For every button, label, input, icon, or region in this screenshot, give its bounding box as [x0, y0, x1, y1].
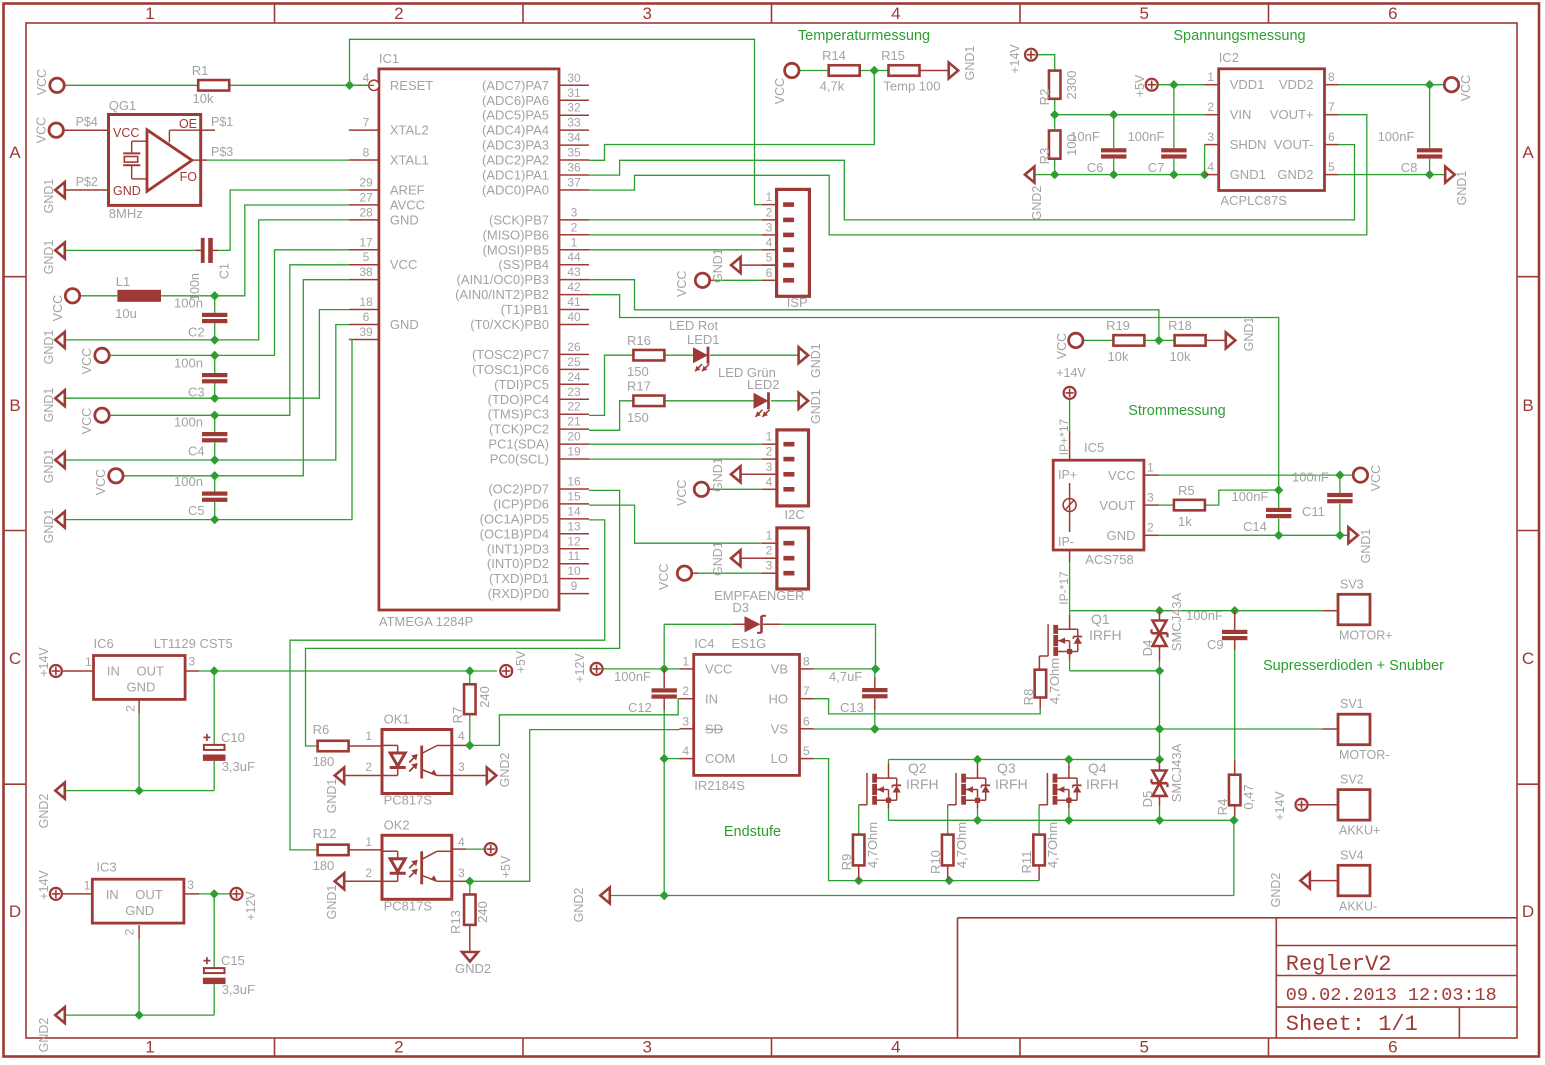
svg-text:3: 3	[571, 205, 578, 219]
svg-text:(OC1A)PD5: (OC1A)PD5	[480, 511, 549, 526]
svg-text:P$4: P$4	[76, 115, 98, 129]
svg-text:240: 240	[475, 901, 490, 923]
svg-text:1k: 1k	[1178, 514, 1192, 529]
svg-text:C8: C8	[1401, 160, 1418, 175]
svg-text:C15: C15	[221, 953, 245, 968]
svg-text:150: 150	[627, 410, 649, 425]
svg-text:2: 2	[1207, 100, 1214, 114]
svg-text:VCC: VCC	[705, 662, 732, 677]
svg-text:GND1: GND1	[42, 449, 56, 484]
svg-text:(ADC2)PA2: (ADC2)PA2	[482, 153, 549, 168]
svg-text:C: C	[9, 649, 21, 668]
svg-text:4: 4	[891, 1038, 900, 1057]
svg-text:GND: GND	[390, 317, 419, 332]
svg-text:AKKU-: AKKU-	[1339, 899, 1377, 913]
svg-text:100nF: 100nF	[1232, 489, 1269, 504]
svg-text:2: 2	[394, 4, 403, 23]
svg-text:QG1: QG1	[109, 98, 136, 113]
svg-text:R4: R4	[1215, 799, 1230, 816]
svg-text:Endstufe: Endstufe	[724, 824, 781, 840]
svg-text:GND2: GND2	[1277, 167, 1313, 182]
svg-text:4: 4	[891, 4, 900, 23]
svg-text:VCC: VCC	[113, 126, 139, 140]
svg-text:IC3: IC3	[96, 860, 116, 875]
svg-text:3,3uF: 3,3uF	[222, 982, 255, 997]
svg-text:6: 6	[803, 714, 810, 728]
svg-text:VCC: VCC	[773, 78, 787, 104]
svg-text:1: 1	[766, 430, 773, 444]
svg-text:IC4: IC4	[694, 636, 714, 651]
svg-text:1: 1	[766, 529, 773, 543]
svg-text:31: 31	[567, 86, 581, 100]
svg-text:A: A	[1522, 143, 1534, 162]
svg-text:(ADC7)PA7: (ADC7)PA7	[482, 78, 549, 93]
svg-text:VCC: VCC	[1108, 468, 1135, 483]
svg-text:IC2: IC2	[1219, 50, 1239, 65]
svg-text:21: 21	[567, 415, 581, 429]
svg-text:Spannungsmessung: Spannungsmessung	[1173, 28, 1305, 44]
svg-text:GND1: GND1	[711, 541, 725, 576]
svg-text:+5V: +5V	[499, 855, 513, 878]
svg-text:3: 3	[642, 4, 651, 23]
svg-text:D4: D4	[1140, 640, 1155, 657]
svg-text:Supresserdioden + Snubber: Supresserdioden + Snubber	[1263, 658, 1444, 674]
svg-text:OK2: OK2	[384, 817, 410, 832]
svg-text:Q2: Q2	[908, 760, 927, 776]
svg-text:36: 36	[567, 161, 581, 175]
svg-text:42: 42	[567, 280, 581, 294]
svg-text:C: C	[1522, 649, 1534, 668]
svg-text:4: 4	[458, 729, 465, 743]
svg-text:ACPLC87S: ACPLC87S	[1220, 193, 1287, 208]
svg-text:10k: 10k	[193, 91, 214, 106]
svg-text:VCC: VCC	[35, 117, 49, 143]
svg-text:2: 2	[1147, 521, 1154, 535]
svg-text:5: 5	[1328, 160, 1335, 174]
svg-text:LO: LO	[771, 751, 788, 766]
svg-text:6: 6	[363, 310, 370, 324]
svg-text:100n: 100n	[174, 415, 203, 430]
svg-text:VOUT+: VOUT+	[1270, 107, 1314, 122]
svg-text:(ICP)PD6: (ICP)PD6	[493, 496, 549, 511]
svg-text:AVCC: AVCC	[390, 197, 425, 212]
svg-text:3,3uF: 3,3uF	[222, 759, 255, 774]
svg-text:RESET: RESET	[390, 78, 433, 93]
svg-text:27: 27	[359, 190, 373, 204]
svg-text:1: 1	[766, 190, 773, 204]
svg-text:180: 180	[313, 858, 335, 873]
svg-text:2: 2	[682, 684, 689, 698]
svg-text:C12: C12	[628, 700, 652, 715]
svg-text:100nF: 100nF	[1292, 470, 1329, 485]
svg-text:2: 2	[766, 445, 773, 459]
svg-text:(T0/XCK)PB0: (T0/XCK)PB0	[470, 317, 549, 332]
svg-text:4,7Ohm: 4,7Ohm	[1047, 658, 1062, 704]
svg-text:30: 30	[567, 71, 581, 85]
svg-text:SV2: SV2	[1340, 773, 1364, 787]
svg-text:5: 5	[803, 744, 810, 758]
svg-text:1: 1	[365, 835, 372, 849]
svg-text:R7: R7	[450, 707, 465, 724]
svg-text:VCC: VCC	[675, 271, 689, 297]
svg-text:35: 35	[567, 146, 581, 160]
svg-text:GND1: GND1	[325, 885, 339, 920]
svg-text:AKKU+: AKKU+	[1339, 824, 1380, 838]
svg-text:39: 39	[359, 325, 373, 339]
svg-text:(AIN0/INT2)PB2: (AIN0/INT2)PB2	[455, 287, 549, 302]
svg-text:Strommessung: Strommessung	[1128, 403, 1226, 419]
svg-text:100n: 100n	[174, 356, 203, 371]
svg-text:1: 1	[145, 4, 154, 23]
svg-text:09.02.2013 12:03:18: 09.02.2013 12:03:18	[1286, 985, 1497, 1006]
svg-text:GND1: GND1	[42, 240, 56, 275]
svg-text:+12V: +12V	[573, 653, 587, 683]
svg-text:P$3: P$3	[211, 145, 233, 159]
svg-text:Q3: Q3	[997, 760, 1016, 776]
svg-text:100nF: 100nF	[614, 669, 651, 684]
svg-text:10k: 10k	[1108, 349, 1129, 364]
svg-text:VOUT-: VOUT-	[1274, 137, 1314, 152]
svg-text:+14V: +14V	[1056, 366, 1086, 380]
svg-text:ES1G: ES1G	[732, 636, 767, 651]
svg-text:1: 1	[571, 235, 578, 249]
svg-text:VCC: VCC	[1055, 333, 1069, 359]
svg-text:R18: R18	[1168, 318, 1192, 333]
svg-text:+12V: +12V	[244, 891, 258, 921]
svg-text:GND1: GND1	[1230, 167, 1266, 182]
svg-text:P$2: P$2	[76, 175, 98, 189]
svg-text:3: 3	[766, 220, 773, 234]
svg-text:R17: R17	[627, 379, 651, 394]
svg-text:SV3: SV3	[1340, 577, 1364, 591]
svg-text:VIN: VIN	[1230, 107, 1252, 122]
svg-text:+5V: +5V	[1133, 74, 1147, 97]
svg-text:4: 4	[458, 835, 465, 849]
svg-text:IP+*17: IP+*17	[1057, 418, 1071, 455]
svg-text:R13: R13	[448, 910, 463, 934]
svg-text:VDD1: VDD1	[1230, 77, 1265, 92]
svg-text:MOTOR+: MOTOR+	[1339, 628, 1393, 642]
svg-text:(ADC0)PA0: (ADC0)PA0	[482, 182, 549, 197]
svg-text:ISP: ISP	[787, 295, 808, 310]
svg-text:R19: R19	[1106, 318, 1130, 333]
svg-text:R10: R10	[928, 850, 943, 874]
svg-text:8: 8	[1328, 70, 1335, 84]
svg-text:C10: C10	[221, 730, 245, 745]
svg-text:GND1: GND1	[1455, 171, 1469, 206]
svg-text:SMCJ43A: SMCJ43A	[1169, 743, 1184, 802]
svg-text:R8: R8	[1021, 689, 1036, 706]
svg-text:(MOSI)PB5: (MOSI)PB5	[483, 242, 549, 257]
svg-text:4,7Ohm: 4,7Ohm	[865, 822, 880, 868]
svg-text:+14V: +14V	[37, 647, 51, 677]
svg-text:R9: R9	[839, 854, 854, 871]
svg-text:GND2: GND2	[1030, 186, 1044, 221]
svg-text:3: 3	[682, 714, 689, 728]
svg-text:240: 240	[477, 686, 492, 708]
svg-text:EMPFAENGER: EMPFAENGER	[714, 588, 804, 603]
svg-text:FO: FO	[180, 170, 198, 184]
svg-text:8: 8	[363, 146, 370, 160]
svg-text:GND1: GND1	[1359, 529, 1373, 564]
svg-text:IC1: IC1	[379, 51, 399, 66]
svg-text:3: 3	[458, 760, 465, 774]
svg-text:(TXD)PD1: (TXD)PD1	[489, 571, 549, 586]
svg-text:C11: C11	[1302, 504, 1325, 519]
svg-text:GND1: GND1	[42, 179, 56, 214]
svg-text:4,7Ohm: 4,7Ohm	[1045, 822, 1060, 868]
svg-text:1: 1	[1147, 461, 1154, 475]
svg-text:LED1: LED1	[687, 332, 720, 347]
svg-text:R2: R2	[1037, 89, 1052, 106]
svg-text:5: 5	[766, 251, 773, 265]
svg-text:24: 24	[567, 370, 581, 384]
svg-text:IP+: IP+	[1058, 468, 1077, 482]
svg-text:(INT1)PD3: (INT1)PD3	[487, 541, 549, 556]
svg-text:C2: C2	[188, 324, 205, 339]
svg-text:VCC: VCC	[657, 564, 671, 590]
svg-text:11: 11	[568, 549, 581, 563]
svg-text:2: 2	[365, 866, 372, 880]
svg-text:Q1: Q1	[1091, 611, 1110, 627]
svg-text:(TOSC1)PC6: (TOSC1)PC6	[472, 362, 549, 377]
svg-text:VCC: VCC	[51, 295, 65, 321]
svg-text:13: 13	[567, 519, 581, 533]
svg-text:GND1: GND1	[1242, 317, 1256, 352]
svg-text:D3: D3	[732, 600, 749, 615]
svg-text:GND2: GND2	[37, 1018, 51, 1053]
svg-text:(TMS)PC3: (TMS)PC3	[488, 407, 549, 422]
svg-text:Temperaturmessung: Temperaturmessung	[798, 28, 930, 44]
svg-text:GND2: GND2	[37, 794, 51, 829]
svg-text:2: 2	[394, 1038, 403, 1057]
svg-text:B: B	[1522, 396, 1533, 415]
svg-text:10: 10	[567, 564, 581, 578]
svg-text:OK1: OK1	[384, 712, 410, 727]
svg-text:ACS758: ACS758	[1085, 552, 1133, 567]
svg-text:1: 1	[365, 729, 372, 743]
svg-text:R3: R3	[1037, 148, 1052, 165]
svg-text:8MHz: 8MHz	[109, 206, 143, 221]
svg-text:(ADC5)PA5: (ADC5)PA5	[482, 108, 549, 123]
svg-text:GND: GND	[113, 184, 141, 198]
svg-text:16: 16	[567, 474, 581, 488]
svg-text:(AIN1/OC0)PB3: (AIN1/OC0)PB3	[457, 272, 549, 287]
svg-text:1: 1	[682, 654, 689, 668]
svg-text:(T1)PB1: (T1)PB1	[501, 302, 549, 317]
svg-text:100nF: 100nF	[1128, 129, 1165, 144]
svg-text:7: 7	[1328, 100, 1335, 114]
svg-text:VCC: VCC	[390, 257, 417, 272]
svg-text:GND1: GND1	[42, 388, 56, 423]
svg-text:COM: COM	[705, 751, 735, 766]
svg-text:VCC: VCC	[1459, 75, 1473, 101]
svg-text:GND: GND	[1107, 528, 1136, 543]
svg-text:GND: GND	[390, 212, 419, 227]
svg-text:VCC: VCC	[94, 469, 108, 495]
svg-text:P$1: P$1	[211, 115, 233, 129]
svg-text:C5: C5	[188, 503, 205, 518]
svg-text:17: 17	[359, 235, 373, 249]
svg-text:C14: C14	[1243, 519, 1267, 534]
svg-text:R11: R11	[1019, 851, 1034, 874]
svg-text:3: 3	[458, 866, 465, 880]
svg-text:3: 3	[642, 1038, 651, 1057]
svg-text:SD: SD	[705, 721, 723, 736]
svg-text:38: 38	[359, 265, 373, 279]
svg-text:Sheet: 1/1: Sheet: 1/1	[1286, 1012, 1418, 1037]
svg-text:GND2: GND2	[572, 888, 586, 923]
svg-text:9: 9	[571, 579, 578, 593]
svg-text:37: 37	[567, 175, 581, 189]
svg-text:R6: R6	[313, 722, 330, 737]
svg-text:100n: 100n	[174, 474, 203, 489]
svg-text:IRFH: IRFH	[906, 776, 939, 792]
svg-text:29: 29	[359, 175, 373, 189]
svg-text:180: 180	[313, 754, 335, 769]
svg-text:6: 6	[1328, 130, 1335, 144]
svg-text:(ADC3)PA3: (ADC3)PA3	[482, 138, 549, 153]
svg-text:4: 4	[1207, 160, 1214, 174]
svg-text:IRFH: IRFH	[995, 776, 1028, 792]
svg-text:IRFH: IRFH	[1086, 776, 1119, 792]
svg-text:7: 7	[803, 684, 810, 698]
svg-text:GND1: GND1	[809, 389, 823, 424]
svg-text:IR2184S: IR2184S	[694, 778, 745, 793]
svg-text:(TCK)PC2: (TCK)PC2	[489, 422, 549, 437]
svg-text:44: 44	[567, 250, 581, 264]
svg-text:100nF: 100nF	[1378, 129, 1415, 144]
svg-text:6: 6	[766, 266, 773, 280]
svg-text:4: 4	[766, 475, 773, 489]
svg-text:33: 33	[567, 116, 581, 130]
svg-text:C7: C7	[1148, 160, 1165, 175]
svg-text:10nF: 10nF	[1070, 129, 1100, 144]
svg-text:8: 8	[803, 654, 810, 668]
svg-text:IP-: IP-	[1058, 535, 1074, 549]
svg-text:VDD2: VDD2	[1279, 77, 1314, 92]
svg-text:GND1: GND1	[42, 509, 56, 544]
svg-text:100n: 100n	[174, 295, 203, 310]
svg-text:I2C: I2C	[785, 507, 805, 522]
svg-text:2: 2	[571, 220, 578, 234]
svg-text:R15: R15	[881, 48, 905, 63]
svg-text:2: 2	[122, 929, 136, 936]
svg-text:(TDI)PC5: (TDI)PC5	[494, 377, 549, 392]
svg-text:40: 40	[567, 310, 581, 324]
svg-text:4,7k: 4,7k	[820, 79, 845, 94]
svg-text:GND1: GND1	[963, 46, 977, 81]
svg-text:VS: VS	[771, 721, 789, 736]
svg-text:PC817S: PC817S	[384, 898, 433, 913]
svg-text:LED2: LED2	[747, 377, 780, 392]
svg-text:5: 5	[363, 250, 370, 264]
svg-text:(ADC6)PA6: (ADC6)PA6	[482, 93, 549, 108]
svg-text:20: 20	[567, 430, 581, 444]
svg-text:GND2: GND2	[498, 753, 512, 788]
svg-text:GND: GND	[125, 903, 154, 918]
svg-text:23: 23	[567, 385, 581, 399]
svg-text:VCC: VCC	[675, 480, 689, 506]
svg-text:R1: R1	[192, 63, 209, 78]
svg-text:43: 43	[567, 265, 581, 279]
svg-text:3: 3	[189, 655, 196, 669]
svg-text:IC6: IC6	[94, 636, 114, 651]
svg-text:(OC1B)PD4: (OC1B)PD4	[480, 526, 549, 541]
svg-text:D5: D5	[1140, 791, 1155, 808]
svg-text:IP-*17: IP-*17	[1057, 571, 1071, 605]
svg-text:(INT0)PD2: (INT0)PD2	[487, 556, 549, 571]
svg-text:(TOSC2)PC7: (TOSC2)PC7	[472, 347, 549, 362]
svg-text:7: 7	[363, 116, 370, 130]
svg-text:GND1: GND1	[711, 457, 725, 492]
svg-text:1: 1	[145, 1038, 154, 1057]
svg-text:Q4: Q4	[1088, 760, 1107, 776]
svg-text:LT1129 CST5: LT1129 CST5	[154, 636, 233, 651]
svg-text:ATMEGA 1284P: ATMEGA 1284P	[379, 614, 473, 629]
svg-text:VCC: VCC	[35, 69, 49, 95]
svg-text:LED Rot: LED Rot	[669, 318, 719, 333]
svg-text:C1: C1	[218, 263, 232, 279]
svg-text:VOUT: VOUT	[1099, 498, 1135, 513]
svg-text:(MISO)PB6: (MISO)PB6	[483, 227, 549, 242]
svg-text:15: 15	[567, 489, 581, 503]
svg-text:22: 22	[567, 400, 581, 414]
svg-text:2300: 2300	[1064, 71, 1079, 100]
svg-text:3: 3	[1207, 130, 1214, 144]
svg-text:PC0(SCL): PC0(SCL)	[490, 452, 549, 467]
svg-text:GND: GND	[127, 680, 156, 695]
svg-text:19: 19	[567, 445, 581, 459]
svg-text:10k: 10k	[1170, 349, 1191, 364]
svg-text:ReglerV2: ReglerV2	[1286, 952, 1392, 977]
svg-text:4,7uF: 4,7uF	[829, 669, 862, 684]
svg-text:25: 25	[567, 355, 581, 369]
svg-text:28: 28	[359, 205, 373, 219]
svg-text:(ADC1)PA1: (ADC1)PA1	[482, 168, 549, 183]
svg-text:SV1: SV1	[1340, 697, 1364, 711]
svg-text:6: 6	[1388, 4, 1397, 23]
svg-text:MOTOR-: MOTOR-	[1339, 748, 1389, 762]
svg-text:XTAL1: XTAL1	[390, 153, 429, 168]
svg-text:SHDN: SHDN	[1230, 137, 1267, 152]
svg-text:R14: R14	[822, 48, 846, 63]
svg-text:D: D	[9, 902, 21, 921]
svg-text:R16: R16	[627, 333, 651, 348]
svg-text:GND1: GND1	[325, 779, 339, 814]
svg-text:PC817S: PC817S	[384, 793, 433, 808]
svg-text:(RXD)PD0: (RXD)PD0	[488, 586, 549, 601]
svg-text:AREF: AREF	[390, 182, 425, 197]
svg-text:6: 6	[1388, 1038, 1397, 1057]
svg-text:GND1: GND1	[809, 343, 823, 378]
svg-text:A: A	[9, 143, 21, 162]
svg-text:VCC: VCC	[1369, 465, 1383, 491]
svg-text:26: 26	[567, 340, 581, 354]
svg-text:VCC: VCC	[80, 348, 94, 374]
svg-text:Temp 100: Temp 100	[883, 79, 940, 94]
svg-text:VB: VB	[771, 662, 788, 677]
svg-text:2: 2	[124, 705, 138, 712]
svg-text:3: 3	[766, 559, 773, 573]
svg-text:5: 5	[1139, 1038, 1148, 1057]
svg-text:+14V: +14V	[37, 870, 51, 900]
svg-text:1: 1	[1207, 70, 1214, 84]
svg-text:IRFH: IRFH	[1089, 627, 1122, 643]
svg-text:(SCK)PB7: (SCK)PB7	[489, 212, 549, 227]
svg-text:SMCJ43A: SMCJ43A	[1169, 592, 1184, 651]
svg-text:IN: IN	[705, 691, 718, 706]
